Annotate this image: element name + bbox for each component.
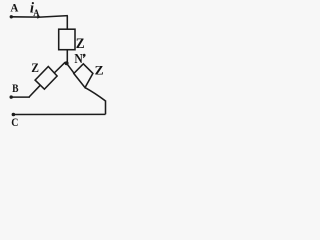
- node A: [10, 15, 13, 18]
- wire A horizontal: [11, 16, 68, 18]
- impedance Z1: [59, 29, 75, 50]
- current arrow iA: [37, 15, 41, 19]
- svg-text:Z: Z: [31, 60, 39, 75]
- wire C horizontal: [13, 113, 105, 115]
- wire Z1 to N': [66, 50, 68, 62]
- wire right vertical: [105, 100, 107, 114]
- svg-text:A: A: [33, 9, 39, 19]
- wire N' to Z3: [67, 63, 75, 73]
- svg-text:N: N: [74, 51, 83, 66]
- wire N' to Z2: [54, 62, 65, 73]
- wire Z2 to B bend: [29, 85, 40, 97]
- svg-text:B: B: [12, 81, 18, 95]
- wire B horizontal: [11, 96, 30, 98]
- node B: [10, 95, 13, 98]
- svg-text:A: A: [10, 1, 18, 15]
- svg-text:C: C: [11, 115, 18, 129]
- svg-text:Z: Z: [95, 63, 104, 78]
- node C: [12, 113, 16, 117]
- impedance Z2: [35, 67, 57, 90]
- wire Z3 to bottom bend: [85, 88, 105, 101]
- svg-text:Z: Z: [76, 36, 85, 52]
- wire top-right corner down: [66, 16, 68, 30]
- impedance Z3: [74, 64, 93, 88]
- node N': [65, 61, 69, 65]
